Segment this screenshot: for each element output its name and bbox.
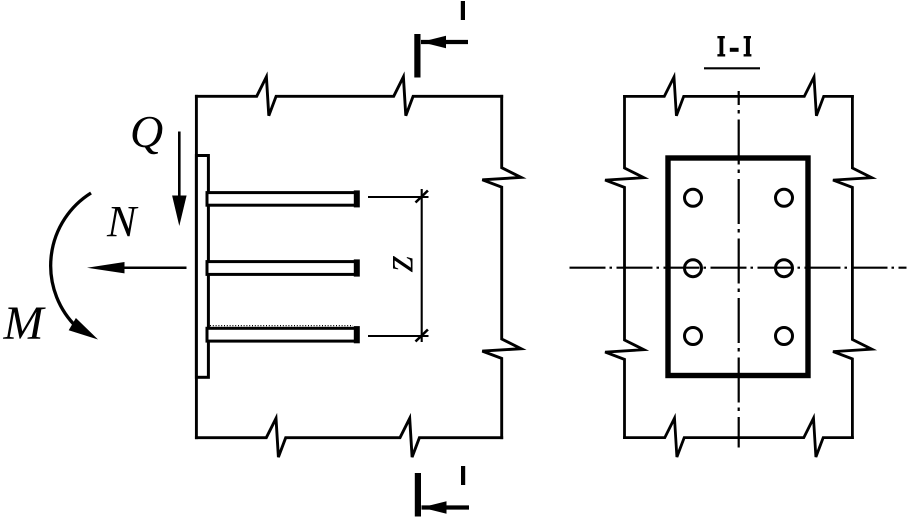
dimension z extension line bottom xyxy=(368,335,429,337)
anchor bolt rod 1 end cap xyxy=(354,190,360,207)
bolt hole B2 xyxy=(776,260,793,277)
wire left edge with breaks xyxy=(605,96,644,437)
anchor bolt rod 3 end cap xyxy=(354,326,360,343)
section cut mark top bar xyxy=(414,34,420,78)
svg-text:Q: Q xyxy=(130,106,163,157)
wire top edge with breaks xyxy=(196,77,501,116)
centerline vertical xyxy=(738,91,740,448)
anchor bolt rod 1 top xyxy=(207,193,356,206)
section title underline xyxy=(704,67,760,69)
bolt hole A3 xyxy=(685,328,702,345)
svg-text:z: z xyxy=(377,255,423,272)
wire left edge column face xyxy=(195,96,198,437)
wire top edge with breaks xyxy=(625,77,853,116)
section title 1-1 xyxy=(717,36,751,57)
svg-text:N: N xyxy=(106,197,139,246)
section cut mark top arrow xyxy=(421,36,468,48)
label 1 bottom xyxy=(461,466,465,485)
wire right edge with breaks xyxy=(482,96,521,437)
label 1 top xyxy=(461,1,465,20)
wire bottom edge with breaks xyxy=(196,418,501,457)
bolt hole A2 xyxy=(685,260,702,277)
centerline horizontal xyxy=(570,267,907,269)
dimension z tick bottom xyxy=(416,330,428,342)
dimension z line xyxy=(421,189,423,342)
dimension z extension line top xyxy=(368,196,429,198)
column outline section view xyxy=(605,77,872,457)
base plate section view xyxy=(668,158,808,376)
wire right edge with breaks xyxy=(833,96,872,437)
dimension z tick top xyxy=(416,191,428,203)
anchor bolt rod 2 end cap xyxy=(354,259,360,276)
section cut mark bottom bar xyxy=(415,473,421,517)
column outline left figure xyxy=(196,77,521,457)
anchor bolt rod 2 middle xyxy=(207,262,356,275)
bolt hole B3 xyxy=(776,328,793,345)
wire bottom edge with breaks xyxy=(625,418,853,457)
thread serration rod 3 xyxy=(210,325,353,327)
base plate side view xyxy=(196,156,208,378)
arrow M moment arc xyxy=(51,193,98,340)
svg-text:M: M xyxy=(3,297,47,350)
arrow Q shear force xyxy=(172,132,187,227)
bolt hole B1 xyxy=(776,189,793,206)
arrow N axial force xyxy=(87,262,187,273)
bolt hole A1 xyxy=(685,189,702,206)
anchor bolt rod 3 bottom xyxy=(207,328,356,341)
section cut mark bottom arrow xyxy=(422,501,470,513)
